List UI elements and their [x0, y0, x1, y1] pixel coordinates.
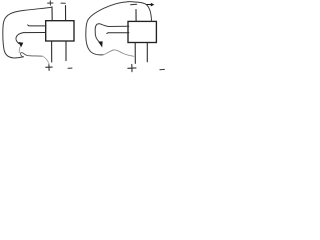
top lead left (wire): [51, 7, 53, 21]
bottom lead left (wire): [134, 43, 136, 64]
bottom lead right (wire): [65, 41, 67, 61]
bottom squiggle tail (light): [42, 56, 49, 64]
resistor box (element) left: [46, 21, 74, 41]
plus label bottom: [128, 64, 136, 71]
bottom lead right (wire): [146, 43, 148, 62]
bottom lead left (wire): [51, 41, 53, 62]
left wire upper: [28, 25, 46, 26]
minus label top: [131, 3, 137, 6]
plus label bottom: [46, 64, 52, 70]
left wire lower: [23, 32, 46, 34]
bottom squiggle (light wire): [103, 50, 134, 56]
arrowhead on loop top: [147, 3, 154, 7]
top lead (wire): [135, 10, 137, 22]
minus label bottom: [68, 67, 72, 69]
top lead right (wire): [65, 6, 67, 21]
left wire lower: [107, 32, 129, 35]
plus label top: [48, 1, 53, 5]
outer loop (hand-drawn): [86, 2, 152, 55]
arrow tail (light): [18, 47, 21, 52]
inner hook curve (wire): [16, 33, 23, 44]
arrowhead right figure inner: [98, 41, 102, 47]
minus label top: [61, 2, 65, 4]
left wire upper + inner hook (wire): [95, 24, 129, 43]
resistor box (element) right: [128, 21, 156, 42]
minus label bottom: [160, 68, 165, 70]
outer loop (hand-drawn): [3, 7, 52, 58]
arrowhead left figure: [18, 42, 23, 47]
bottom squiggle left (wire): [20, 53, 42, 57]
